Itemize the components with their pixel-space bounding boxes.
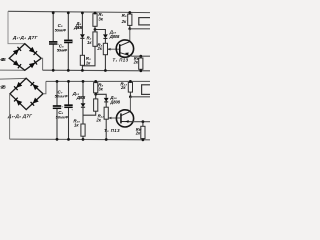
capacitor C5 — [52, 12, 54, 70]
wire emitter line ch1 — [132, 55, 150, 57]
resistor Rn ch2 — [142, 122, 144, 127]
svg-text:Д₅-Д₈ Д7Г: Д₅-Д₈ Д7Г — [7, 114, 32, 119]
wire collector down to T2 — [129, 97, 131, 112]
svg-text:Д808: Д808 — [109, 99, 120, 104]
svg-text:3к: 3к — [98, 16, 103, 21]
svg-text:2к: 2к — [120, 85, 126, 90]
svg-text:~17В: ~17В — [0, 57, 7, 62]
diode arrow TL2 — [14, 82, 22, 90]
wire node R8 to D16 — [96, 94, 107, 98]
diode arrow BR — [29, 60, 37, 68]
node collector ch1 — [128, 27, 131, 30]
transistor T2 — [116, 110, 133, 127]
diode arrow BR2 — [30, 98, 38, 106]
junction dots top bus ch1 — [52, 11, 55, 14]
wire bridge2 output to top bus ch2 — [43, 81, 46, 93]
svg-text:~17В: ~17В — [0, 85, 7, 90]
junction dots top bus ch2 — [56, 80, 59, 83]
diode arrow BL2 — [14, 98, 22, 106]
diode arrow TL — [13, 47, 21, 55]
svg-text:+: + — [71, 108, 73, 112]
svg-text:+: + — [72, 40, 74, 44]
resistor R5 — [129, 13, 131, 29]
wire top bus — [8, 11, 150, 12]
svg-text:Т₂ П13: Т₂ П13 — [104, 128, 120, 133]
svg-text:2к: 2к — [121, 19, 127, 24]
potentiometer R12 — [104, 107, 108, 119]
resistor R13 — [129, 81, 131, 96]
svg-text:R₅: R₅ — [122, 13, 127, 18]
svg-text:Д808: Д808 — [109, 34, 120, 39]
zener D9 — [81, 12, 83, 70]
diode D16 — [104, 98, 109, 102]
wire R2 bottom to zener line — [82, 46, 95, 66]
svg-text:Т₁ П13: Т₁ П13 — [113, 57, 129, 62]
resistor Rn ch1 — [140, 56, 142, 58]
svg-text:50мкФ: 50мкФ — [55, 28, 67, 33]
wire wiper to base T2 — [109, 117, 121, 119]
svg-text:Д₁-Д₄ Д7Г: Д₁-Д₄ Д7Г — [12, 35, 38, 40]
capacitor C8 — [68, 81, 70, 139]
capacitor C6 — [67, 12, 69, 70]
wire wiper to base T1 — [108, 48, 120, 50]
capacitor C7 — [56, 81, 58, 139]
wire bottom bus — [10, 138, 150, 141]
resistor R10 — [81, 124, 85, 136]
svg-text:2к: 2к — [133, 59, 139, 64]
potentiometer R4 — [103, 43, 107, 54]
svg-text:50мкФ: 50мкФ — [55, 94, 69, 99]
wire collector line right ch2 — [130, 96, 150, 98]
output box ch2 — [142, 85, 152, 95]
wire mid bus channel1 — [43, 69, 150, 72]
junction dots bottom bus — [56, 138, 59, 141]
svg-text:1к: 1к — [86, 60, 91, 65]
wire R9 bottom to zener line — [83, 111, 96, 115]
svg-text:Д808: Д808 — [73, 25, 83, 30]
wire top bus channel2 — [46, 80, 150, 82]
wire AC input channel2 — [0, 77, 26, 80]
diode D10 — [103, 34, 108, 38]
resistor R2 — [94, 30, 96, 32]
wire collector line right ch1 — [130, 28, 150, 30]
resistor R8 — [95, 81, 97, 82]
zener D15 — [82, 81, 84, 139]
wire left frame corner — [8, 11, 25, 43]
wire collector down to T1 — [129, 29, 131, 42]
svg-text:50мкФ: 50мкФ — [56, 115, 69, 120]
output box ch1 — [139, 18, 151, 25]
wire AC input channel1 — [0, 69, 25, 71]
bridge D1-D4 — [9, 44, 41, 71]
node collector ch2 — [129, 95, 132, 98]
svg-text:Д808: Д808 — [76, 95, 86, 100]
diode arrow BL — [13, 60, 21, 68]
resistor R3 — [80, 55, 84, 65]
svg-text:+: + — [62, 105, 64, 109]
wire node R1 to D10 — [95, 30, 105, 35]
wire bridge1 + output to mid bus — [41, 58, 42, 70]
svg-text:2к: 2к — [95, 118, 101, 123]
wire emitter line ch2 — [133, 121, 150, 123]
resistor R1 — [94, 13, 96, 30]
wire left vertical to bottom bus — [9, 94, 11, 139]
diode arrow TR2 — [30, 82, 38, 90]
resistor R9 — [95, 94, 97, 99]
transistor T1 — [116, 40, 133, 57]
svg-text:2к: 2к — [135, 131, 141, 136]
diode arrow TR — [29, 47, 37, 55]
junction dots mid bus ch1 — [52, 69, 55, 72]
svg-text:50мкФ: 50мкФ — [57, 47, 68, 52]
bridge D5-D8 — [10, 78, 43, 109]
